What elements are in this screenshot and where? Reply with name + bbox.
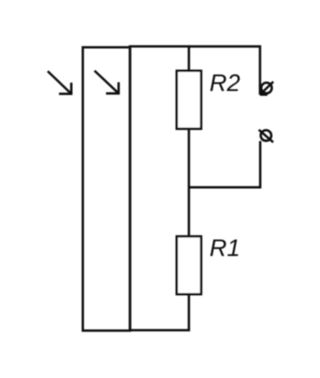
terminal X2 circle: [261, 130, 272, 141]
wire middle (divider tap to terminal X2): [189, 141, 260, 187]
light arrow 2 shaft: [95, 71, 119, 94]
svg-text:R2: R2: [210, 70, 241, 97]
terminal X1 stub: [260, 93, 268, 95]
photocell body right section: [130, 46, 189, 330]
terminal X2 slash: [259, 130, 273, 143]
light arrow 2 head: [106, 82, 119, 93]
light arrow 1 shaft: [48, 71, 72, 94]
photocell body left section: [83, 47, 130, 330]
terminal X1 slash: [260, 82, 274, 95]
terminal X1 circle: [261, 83, 272, 94]
wire top (body top-right to terminal X1): [189, 46, 260, 94]
resistor R1 body: [177, 236, 201, 294]
light arrow 1 head: [59, 83, 71, 94]
svg-text:R1: R1: [210, 235, 241, 262]
resistor R2 body: [177, 71, 201, 129]
